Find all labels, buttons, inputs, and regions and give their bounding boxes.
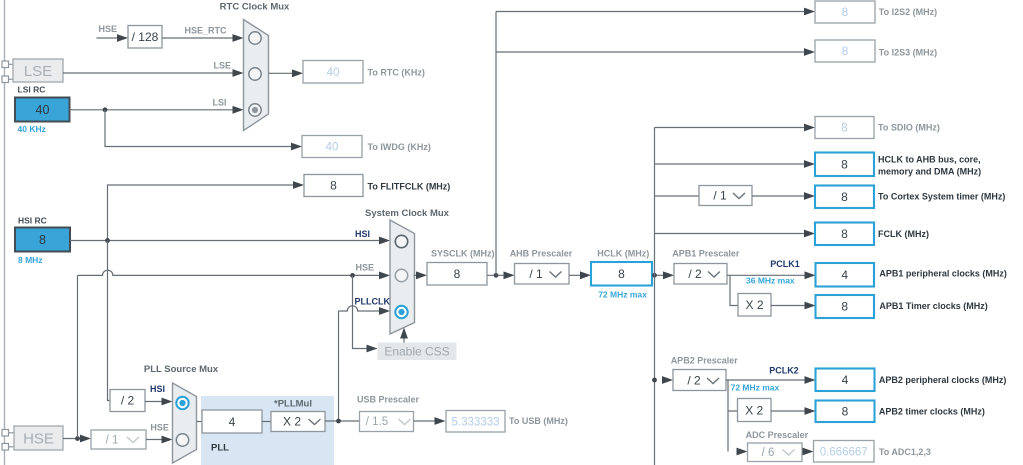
wire HSE to system clock mux with hop [78, 270, 381, 275]
Cortex prescaler dropdown /1 [699, 186, 752, 206]
PLL mux radio HSI selected [176, 397, 188, 409]
wire X2 to APB1 timer box [771, 305, 806, 307]
svg-text:PLL: PLL [211, 443, 229, 454]
junction HCLK trunk [652, 273, 657, 278]
svg-text:/ 1.5: / 1.5 [366, 416, 388, 428]
svg-text:PCLK2: PCLK2 [769, 366, 799, 376]
svg-text:/ 1: / 1 [106, 435, 119, 447]
svg-text:8: 8 [841, 227, 848, 241]
wire APB2 branch down [728, 380, 738, 452]
wire AHB to HCLK [569, 274, 582, 276]
chip boundary line [4, 0, 6, 465]
svg-text:4: 4 [229, 415, 236, 429]
wire /1 to PLL mux [146, 439, 163, 441]
RTC mux radio LSE [249, 68, 261, 80]
junction HSE CSS branch [350, 273, 355, 278]
USB prescaler dropdown /1.5 [360, 412, 414, 432]
wire system mux to SYSCLK [414, 274, 418, 276]
wire USB prescaler to USB box [414, 420, 437, 422]
svg-text:To I2S3 (MHz): To I2S3 (MHz) [879, 48, 937, 58]
To I2S3 box 8 [815, 40, 875, 62]
LSI RC source block 40 [15, 98, 70, 122]
LSE source block [13, 59, 63, 82]
system mux radio PLLCLK selected [395, 306, 407, 318]
junction I2S trunk [494, 273, 499, 278]
svg-text:40: 40 [326, 142, 339, 154]
wire APB1 to PCLK1 box [727, 274, 806, 276]
APB1 peripheral clocks box 4 [816, 263, 875, 287]
svg-text:40: 40 [327, 67, 340, 79]
To ADC box 0.666667 [814, 441, 875, 463]
svg-text:HCLK to AHB bus, core,: HCLK to AHB bus, core, [878, 155, 981, 165]
svg-text:8: 8 [454, 267, 461, 281]
svg-text:8: 8 [842, 7, 848, 19]
svg-text:USB Prescaler: USB Prescaler [357, 395, 420, 405]
wire HSI down to PLL /2 [108, 241, 111, 401]
svg-text:8: 8 [39, 233, 46, 247]
PLL block background [201, 396, 334, 465]
wire HSI to system clock mux [70, 240, 381, 242]
svg-text:HSI: HSI [355, 229, 370, 239]
svg-text:72 MHz max: 72 MHz max [731, 383, 780, 393]
wire Cortex prescaler to box [752, 195, 806, 197]
wire RTC mux to RTC box [269, 72, 294, 74]
wire HSI to FLITFCLK [108, 185, 296, 241]
svg-text:APB2 Prescaler: APB2 Prescaler [671, 356, 739, 366]
RTC mux radio HSE_RTC [249, 32, 261, 44]
svg-text:/ 2: / 2 [687, 374, 701, 388]
svg-text:memory and DMA (MHz): memory and DMA (MHz) [878, 167, 981, 177]
HCLK box 8 [591, 262, 652, 286]
PLL HSE PreDiv dropdown /1 [91, 430, 146, 449]
APB1 prescaler dropdown /2 [674, 264, 727, 285]
svg-text:APB2 peripheral clocks (MHz): APB2 peripheral clocks (MHz) [879, 375, 1007, 385]
svg-text:4: 4 [841, 268, 848, 282]
svg-text:8: 8 [841, 123, 847, 135]
To FLITFCLK output box 8 [304, 175, 363, 197]
wire APB1 branch to X2 [730, 275, 738, 305]
To I2S2 box 8 [815, 1, 875, 23]
svg-text:0.666667: 0.666667 [820, 447, 868, 459]
Enable CSS button [378, 343, 457, 361]
wire to Cortex prescaler [655, 195, 700, 197]
svg-text:LSE: LSE [213, 61, 231, 71]
wire /128 to RTC mux [162, 37, 234, 39]
wire LSI to IWDG [105, 110, 293, 147]
svg-text:To RTC (KHz): To RTC (KHz) [368, 68, 425, 78]
junction HSE [75, 436, 80, 441]
svg-text:4: 4 [842, 373, 849, 387]
svg-text:PLL Source Mux: PLL Source Mux [144, 364, 219, 375]
PLL source mux body [173, 383, 197, 463]
To RTC output box 40 [303, 61, 363, 84]
svg-text:APB2 timer clocks (MHz): APB2 timer clocks (MHz) [879, 406, 985, 416]
ADC prescaler dropdown /6 [748, 443, 803, 462]
wire to I2S2 [496, 11, 806, 13]
wire HSE out to PreDiv [63, 438, 82, 440]
system mux radio HSE [395, 269, 407, 281]
svg-text:HSE: HSE [99, 24, 118, 34]
svg-text:LSI: LSI [212, 98, 226, 108]
svg-text:APB1 peripheral clocks (MHz): APB1 peripheral clocks (MHz) [879, 268, 1007, 278]
HSI RC source block 8 [15, 228, 70, 252]
junction LSI branch [103, 107, 108, 112]
svg-text:X 2: X 2 [283, 415, 301, 429]
wire ADC to box [803, 448, 814, 456]
svg-text:5.333333: 5.333333 [452, 417, 500, 429]
wire SYSCLK to AHB prescaler [487, 274, 505, 276]
HSE pin 2 [2, 444, 14, 451]
wire HSE to /128 divider [97, 37, 119, 39]
svg-text:/ 1: / 1 [529, 267, 543, 281]
svg-text:8: 8 [841, 190, 848, 204]
svg-text:LSE: LSE [24, 63, 52, 80]
svg-text:HSI: HSI [150, 384, 165, 394]
wire HSE trunk up [77, 275, 79, 438]
svg-text:/ 128: / 128 [132, 30, 159, 44]
To SDIO box 8 [815, 117, 874, 139]
FCLK box 8 [815, 223, 874, 246]
wire LSE to RTC mux [63, 72, 234, 74]
wire HCLK to APB1 prescaler [652, 274, 665, 276]
wire LSI to RTC mux [70, 109, 234, 111]
svg-text:8: 8 [842, 405, 849, 419]
svg-text:RTC Clock Mux: RTC Clock Mux [220, 2, 290, 13]
svg-text:36 MHz max: 36 MHz max [746, 276, 795, 286]
junction HSI branch [105, 238, 110, 243]
svg-text:HCLK (MHz): HCLK (MHz) [597, 249, 649, 259]
LSE pin 2 [2, 76, 13, 83]
svg-text:HSE: HSE [23, 431, 54, 448]
svg-text:8: 8 [618, 267, 625, 281]
wire X2 to APB2 timer box [771, 410, 806, 412]
APB2 peripheral clocks box 4 [816, 369, 875, 392]
svg-text:To I2S2 (MHz): To I2S2 (MHz) [879, 7, 937, 17]
To IWDG output box 40 [302, 136, 362, 158]
wire to SDIO [655, 127, 806, 129]
svg-text:LSI RC: LSI RC [18, 85, 46, 95]
APB1 multiplier X2 [738, 294, 771, 317]
APB2 multiplier X2 [738, 399, 772, 422]
svg-text:ADC Prescaler: ADC Prescaler [746, 430, 809, 440]
SYSCLK box 8 [427, 263, 487, 286]
wire /2 to PLL mux [145, 401, 163, 403]
junction APB2 [652, 378, 657, 383]
svg-text:8: 8 [330, 179, 337, 193]
APB1 timer clocks box 8 [816, 295, 875, 318]
svg-text:8 MHz: 8 MHz [18, 255, 43, 265]
svg-text:8: 8 [841, 158, 848, 172]
svg-text:APB1 Timer clocks (MHz): APB1 Timer clocks (MHz) [879, 301, 987, 311]
wire PLL out to USB prescaler [325, 420, 362, 422]
wire 4 to PLLMul [262, 421, 271, 423]
HCLK to AHB box 8 [815, 153, 874, 177]
junction PLLCLK [336, 419, 341, 424]
svg-text:To IWDG (KHz): To IWDG (KHz) [368, 142, 431, 152]
svg-text:8: 8 [842, 46, 848, 58]
svg-text:40: 40 [36, 103, 50, 117]
svg-text:X 2: X 2 [745, 298, 763, 312]
svg-text:Enable CSS: Enable CSS [384, 345, 449, 359]
svg-text:To SDIO (MHz): To SDIO (MHz) [878, 123, 940, 133]
svg-text:AHB Prescaler: AHB Prescaler [510, 249, 573, 259]
LSE pin 1 [2, 61, 13, 68]
svg-text:8: 8 [841, 300, 848, 314]
svg-text:HSE_RTC: HSE_RTC [184, 26, 227, 36]
PLL input box 4 [202, 410, 262, 433]
svg-text:SYSCLK (MHz): SYSCLK (MHz) [431, 249, 495, 259]
svg-text:To ADC1,2,3: To ADC1,2,3 [879, 447, 931, 457]
wire to FCLK [655, 233, 806, 235]
Cortex timer box 8 [815, 186, 874, 209]
svg-text:To FLITFCLK (MHz): To FLITFCLK (MHz) [368, 182, 451, 192]
svg-text:/ 2: / 2 [688, 267, 702, 281]
svg-text:FCLK (MHz): FCLK (MHz) [878, 229, 929, 239]
PLLMul dropdown X2 [271, 412, 325, 432]
svg-text:/ 1: / 1 [713, 189, 727, 203]
svg-text:X 2: X 2 [745, 404, 763, 418]
wire to ADC prescaler [737, 448, 748, 456]
wire to Enable CSS [353, 275, 369, 348]
svg-text:/ 6: / 6 [762, 447, 775, 459]
wire mux to PLL input box [197, 421, 203, 423]
RTC mux radio LSI selected [249, 104, 261, 116]
svg-text:HSE: HSE [356, 263, 375, 273]
APB2 timer clocks box 8 [816, 401, 875, 423]
svg-text:HSE: HSE [150, 423, 169, 433]
system clock mux body [390, 220, 415, 334]
APB2 prescaler dropdown /2 [673, 370, 726, 391]
PLL /2 divider box [110, 390, 145, 412]
RTC clock mux body [244, 20, 269, 131]
arrow Enable CSS to mux [403, 336, 405, 343]
wire PLLCLK to system mux with hop [339, 306, 381, 421]
wire to I2S3 [496, 51, 806, 53]
To USB box 5.333333 [446, 411, 505, 433]
PLL mux radio HSE [176, 434, 188, 446]
svg-text:PLLCLK: PLLCLK [355, 297, 391, 307]
svg-text:*PLLMul: *PLLMul [274, 399, 312, 410]
svg-text:System Clock Mux: System Clock Mux [365, 208, 450, 219]
HSE source block [14, 426, 63, 450]
svg-text:To USB (MHz): To USB (MHz) [509, 416, 568, 426]
wire APB2 to PCLK2 box [726, 379, 807, 381]
svg-text:HSI RC: HSI RC [18, 216, 47, 226]
system mux radio HSI [395, 235, 407, 247]
svg-text:To Cortex System timer (MHz): To Cortex System timer (MHz) [878, 192, 1005, 202]
svg-text:APB1 Prescaler: APB1 Prescaler [672, 249, 740, 259]
wire HCLK trunk vertical [654, 128, 656, 465]
svg-text:/ 2: / 2 [121, 394, 135, 408]
svg-text:40 KHz: 40 KHz [18, 124, 46, 134]
svg-text:PCLK1: PCLK1 [770, 259, 800, 269]
svg-text:72 MHz max: 72 MHz max [598, 290, 647, 300]
HSE pin 1 [2, 430, 14, 437]
divider /128 [128, 26, 162, 49]
wire I2S trunk up [495, 12, 497, 276]
wire to HCLK AHB box [655, 163, 806, 165]
AHB prescaler dropdown /1 [515, 264, 570, 285]
wire trunk to APB2 prescaler [662, 376, 673, 384]
